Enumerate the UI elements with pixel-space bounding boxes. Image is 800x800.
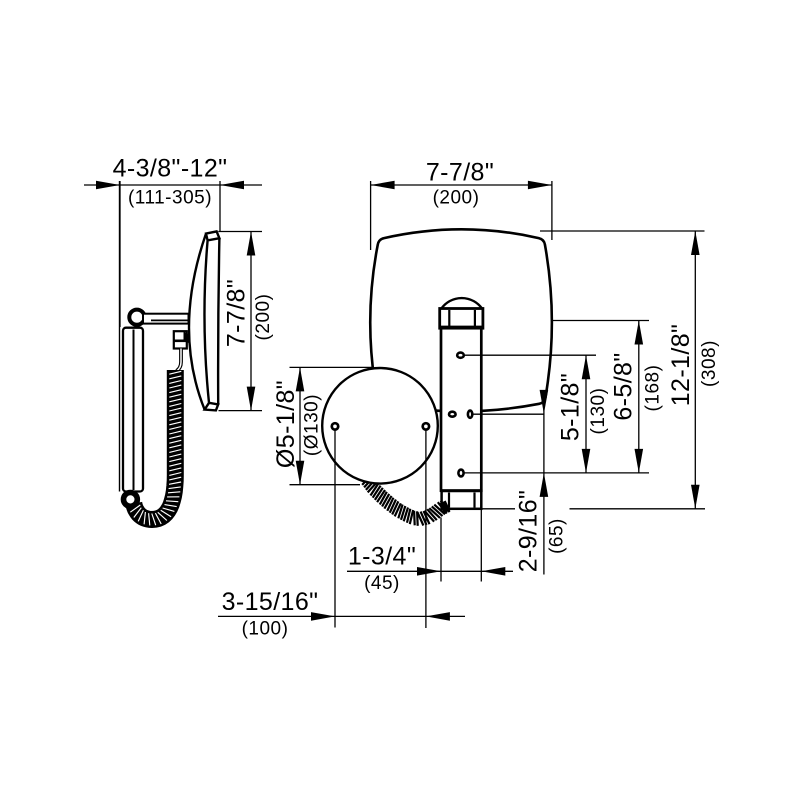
svg-text:(45): (45) — [364, 573, 400, 594]
ref line middle hole — [474, 413, 545, 415]
mirror front (squircle) — [370, 229, 552, 411]
dimension 3-15/16in screw spacing — [218, 615, 465, 617]
svg-text:(308): (308) — [699, 340, 720, 387]
wall line (side view) — [119, 181, 121, 492]
dimension 7-7/8in front width — [371, 184, 552, 186]
hole top — [457, 353, 464, 358]
ref line bar bottom — [482, 508, 515, 510]
hole middle-left — [449, 412, 456, 417]
dimension 12-1/8in overall height — [694, 231, 696, 509]
svg-text:Ø5-1/8": Ø5-1/8" — [272, 380, 300, 468]
wall bar body — [441, 328, 481, 491]
svg-text:(168): (168) — [643, 365, 664, 412]
wall bar dome cap — [441, 298, 482, 308]
hole bottom — [458, 470, 463, 477]
drop cable — [177, 349, 182, 372]
svg-text:(200): (200) — [253, 294, 274, 341]
top pivot ring — [129, 310, 144, 325]
screw hole right — [423, 423, 429, 429]
hole middle-right — [468, 411, 472, 418]
svg-text:(65): (65) — [547, 518, 568, 554]
mirror (side profile) — [189, 231, 219, 410]
svg-text:(100): (100) — [242, 619, 289, 640]
bottom pivot ring — [123, 493, 137, 507]
svg-text:4-3/8"-12": 4-3/8"-12" — [113, 155, 228, 183]
svg-text:(111-305): (111-305) — [128, 188, 212, 209]
dimension 6-5/8in — [638, 321, 640, 473]
svg-text:(200): (200) — [433, 188, 480, 209]
dimension 1-3/4in bar width — [347, 570, 513, 572]
wall rail (side view) — [123, 328, 143, 492]
svg-text:5-1/8": 5-1/8" — [557, 373, 585, 441]
ref line bottom hole — [465, 472, 650, 474]
screw hole stem right — [425, 426, 427, 628]
ref line mirror top — [540, 230, 705, 232]
screw hole left — [332, 423, 338, 429]
svg-text:1-3/4": 1-3/4" — [348, 543, 416, 571]
svg-text:(130): (130) — [588, 388, 609, 435]
svg-text:(Ø130): (Ø130) — [302, 394, 323, 456]
dimension 5-1/8in hole spacing — [585, 355, 587, 473]
coiled cord (side view) — [134, 370, 176, 520]
dimension dia 5-1/8in circle — [290, 366, 375, 368]
wall bar bottom cap — [442, 491, 482, 509]
screw hole stem left — [334, 426, 336, 627]
svg-text:7-7/8": 7-7/8" — [426, 158, 494, 186]
ref line top hole — [465, 354, 597, 356]
swivel arm — [143, 314, 189, 324]
dimension 4-3/8in-12in width — [84, 184, 262, 186]
dimension 7-7/8in side height — [218, 231, 262, 233]
svg-text:6-5/8": 6-5/8" — [610, 352, 638, 420]
round mirror (front view circle) — [322, 368, 438, 484]
svg-text:7-7/8": 7-7/8" — [223, 279, 251, 347]
wall bar top cap — [440, 309, 483, 329]
dimension 2-9/16in — [543, 392, 545, 575]
ref line bar cap top — [551, 320, 649, 322]
cable connector box — [174, 331, 187, 348]
svg-text:12-1/8": 12-1/8" — [667, 324, 695, 407]
svg-text:2-9/16": 2-9/16" — [515, 490, 543, 573]
svg-text:3-15/16": 3-15/16" — [222, 588, 319, 616]
